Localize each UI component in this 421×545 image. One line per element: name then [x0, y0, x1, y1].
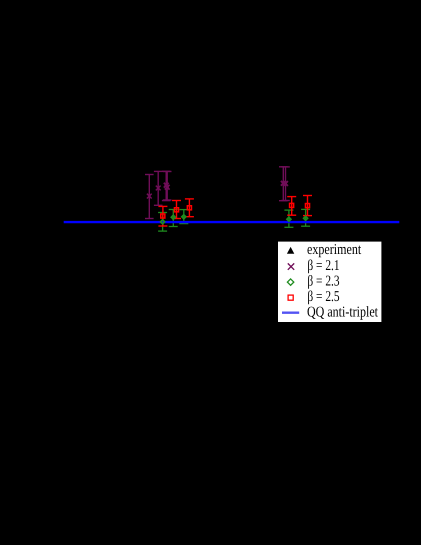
legend marker: beta 2.5 square — [288, 295, 293, 300]
error bar M4 (beta=2.1) — [279, 167, 288, 201]
diamond marker G3 (beta=2.3) — [182, 215, 186, 219]
legend box — [278, 242, 381, 322]
error bar R5 (beta=2.5) — [303, 196, 312, 216]
error bar M5 (beta=2.1) — [281, 167, 290, 201]
legend marker: beta 2.1 cross — [288, 263, 294, 269]
svg-text:QQ anti-triplet: QQ anti-triplet — [307, 305, 379, 321]
error bar M3b (beta=2.1) — [163, 172, 172, 201]
diamond marker G1 (beta=2.3) — [161, 220, 165, 224]
svg-text:β = 2.5: β = 2.5 — [307, 289, 339, 305]
legend marker: experiment triangle — [287, 247, 294, 254]
legend line: QQ anti-triplet — [282, 312, 299, 314]
error bar G5 lines (beta=2.3) — [301, 209, 310, 226]
QQ anti-triplet line — [64, 221, 400, 223]
diamond marker G5 (beta=2.3) — [304, 216, 308, 220]
error bar M1 (beta=2.1) — [145, 175, 154, 219]
error bar R4 (beta=2.5) — [287, 197, 296, 216]
legend marker: beta 2.3 diamond — [287, 279, 293, 285]
error bar G3 lines (beta=2.3) — [179, 210, 188, 224]
error bar G2 lines (beta=2.3) — [169, 210, 178, 227]
error bar R3 (beta=2.5) — [185, 199, 194, 217]
svg-text:β = 2.3: β = 2.3 — [307, 274, 339, 290]
diamond marker G4 (beta=2.3) — [287, 217, 291, 221]
svg-text:experiment: experiment — [307, 242, 362, 258]
error bar M3a (beta=2.1) — [162, 171, 171, 200]
diamond marker G2 (beta=2.3) — [171, 215, 175, 219]
error bar G4 lines (beta=2.3) — [284, 210, 293, 227]
svg-text:β = 2.1: β = 2.1 — [307, 258, 339, 274]
error bar R1 (beta=2.5) — [158, 206, 167, 226]
error bar R2 (beta=2.5) — [172, 201, 181, 219]
error bar G1 lines (beta=2.3) — [158, 213, 167, 232]
error bar M2 (beta=2.1) — [154, 171, 163, 205]
